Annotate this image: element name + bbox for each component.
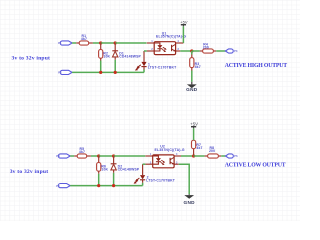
U2 pin number 4 <box>176 152 178 156</box>
wire P1 to R1 <box>72 42 76 44</box>
wire bottom rail P2 to LED1 <box>72 71 144 73</box>
wire R4 to P3 <box>216 50 225 52</box>
svg-text:10K: 10K <box>103 55 110 59</box>
op-to-coupler U1 EL357N <box>147 32 187 55</box>
svg-text:P5: P5 <box>56 184 60 188</box>
U2 pin number 1 <box>150 152 152 156</box>
svg-text:4k7: 4k7 <box>79 150 85 154</box>
opto-coupler U2 EL357N <box>145 145 184 168</box>
wire D2 to U2 pin1 <box>114 155 146 157</box>
svg-text:P2: P2 <box>58 71 62 75</box>
label: ACTIVE HIGH OUTPUT <box>225 63 287 69</box>
connector P4 (bottom input +) <box>56 154 70 158</box>
junction D2 bottom <box>112 184 115 187</box>
resistor R3 4k7 <box>190 51 201 71</box>
wire LED2 to U2 pin2 <box>143 163 146 165</box>
junction R2 bottom <box>99 71 102 74</box>
connector P6 (active low output) <box>226 154 238 158</box>
junction node OUT2 <box>192 154 195 157</box>
svg-text:EL357N(C)(TA)-G: EL357N(C)(TA)-G <box>155 148 185 152</box>
resistor R1 4k7 <box>76 34 93 45</box>
svg-text:GND: GND <box>186 87 198 92</box>
junction D1 bottom <box>114 71 117 74</box>
junction R6 bottom <box>97 184 100 187</box>
svg-text:CD4148WSP: CD4148WSP <box>119 55 141 59</box>
U1 pin number 3 <box>177 47 179 51</box>
svg-text:4k7: 4k7 <box>195 65 201 69</box>
svg-text:GND: GND <box>184 200 196 205</box>
wire U1 emitter to node OUT1 <box>180 50 192 52</box>
svg-text:CD4148WSP: CD4148WSP <box>118 168 140 172</box>
svg-text:ACTIVE HIGH OUTPUT: ACTIVE HIGH OUTPUT <box>225 63 287 69</box>
wire bottom rail P5 to LED2 <box>70 185 142 187</box>
svg-text:3v to 32v input: 3v to 32v input <box>10 169 49 175</box>
diode D2 CD4148WSP <box>111 156 140 186</box>
svg-text:+5V: +5V <box>180 20 188 25</box>
wire U2 collector to node OUT2 <box>181 155 194 157</box>
svg-text:3v to 32v input: 3v to 32v input <box>12 56 51 62</box>
wire node B to D2 <box>99 155 114 157</box>
wire node OUT2 to R8 <box>194 155 205 157</box>
connector P1 (top input +) <box>58 41 72 45</box>
U2 pin number 2 <box>150 160 152 164</box>
resistor R7 4k7 pull-up <box>192 128 203 156</box>
resistor R5 4k7 <box>74 147 91 158</box>
wire R1 to node A <box>93 42 101 44</box>
LED 1 LTST-C170TBKT <box>135 51 177 72</box>
label: ACTIVE LOW OUTPUT <box>225 162 286 168</box>
svg-text:P1: P1 <box>58 41 62 45</box>
svg-text:P3: P3 <box>234 49 238 53</box>
diode D1 CD4148WSP <box>112 43 141 72</box>
svg-text:LTST-C170TBKT: LTST-C170TBKT <box>146 179 175 183</box>
wire LED1 to U1 pin2 <box>144 50 147 52</box>
junction node A <box>99 41 102 44</box>
label: 3v to 32v input (top) <box>12 56 51 62</box>
resistor R8 200 <box>205 146 222 158</box>
junction node OUT1 <box>190 49 193 52</box>
connector P2 (top input -) <box>58 70 72 74</box>
svg-text:LTST-C170TBKT: LTST-C170TBKT <box>148 66 177 70</box>
junction at D1 top <box>114 41 117 44</box>
power +5V (top) <box>180 20 188 27</box>
junction at D2 top <box>112 154 115 157</box>
ground GND (top) <box>186 82 198 92</box>
svg-text:200: 200 <box>209 149 215 153</box>
LED 2 LTST-C170TBKT <box>134 164 176 185</box>
svg-text:P4: P4 <box>56 154 60 158</box>
svg-text:+5V: +5V <box>190 122 198 127</box>
svg-text:ACTIVE LOW OUTPUT: ACTIVE LOW OUTPUT <box>225 162 286 168</box>
power +5V (bottom) <box>190 122 198 129</box>
svg-text:10K: 10K <box>101 168 108 172</box>
ground GND (bottom) <box>184 194 196 205</box>
U1 pin number 2 <box>151 47 153 51</box>
wire R5 to node B <box>91 155 99 157</box>
wire U2 emitter to GND <box>179 164 190 194</box>
resistor R6 10K <box>97 156 109 186</box>
U1 pin number 1 <box>151 39 153 43</box>
U1 pin number 4 <box>177 39 179 43</box>
svg-text:EL357N(C)(TA)-G: EL357N(C)(TA)-G <box>156 35 186 39</box>
resistor R4 200 <box>200 42 216 53</box>
connector P5 (bottom input -) <box>56 184 70 188</box>
svg-text:4k7: 4k7 <box>196 146 202 150</box>
wire node A to D1 <box>101 42 116 44</box>
wire P4 to R5 <box>70 155 74 157</box>
label: 3v to 32v input (bottom) <box>10 169 49 175</box>
svg-text:P6: P6 <box>234 154 238 158</box>
junction node B <box>97 154 100 157</box>
wire R3 to GND <box>191 71 193 82</box>
svg-text:4k7: 4k7 <box>81 37 87 41</box>
wire U1 collector to +5V <box>182 26 184 43</box>
U2 pin number 3 <box>176 160 178 164</box>
svg-text:200: 200 <box>203 45 209 49</box>
connector P3 (active high output) <box>225 49 237 53</box>
wire node OUT1 to R4 <box>192 50 200 52</box>
resistor R2 10K <box>99 43 111 72</box>
wire D1 to U1 pin1 <box>115 42 146 44</box>
wire R8 to P6 <box>221 155 225 157</box>
